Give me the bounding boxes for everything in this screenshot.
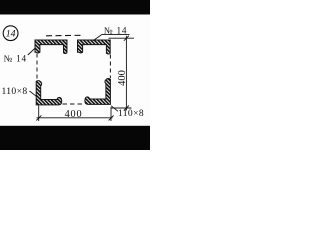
- angle L2 (bottom-right, 110x8): [85, 79, 111, 105]
- leader: [93, 34, 102, 40]
- extension line right: [110, 107, 112, 121]
- figure number circle 14: [3, 26, 18, 41]
- label No.14 top-right: [93, 25, 130, 40]
- horizontal dimension 400: [36, 106, 113, 122]
- svg-text:110×8: 110×8: [118, 108, 144, 119]
- channel C2 (top-right, No.14): [78, 40, 111, 54]
- svg-text:№ 14: № 14: [104, 25, 127, 35]
- svg-text:14: 14: [6, 29, 16, 40]
- top black bar: [0, 0, 150, 15]
- dimension line: [37, 117, 113, 119]
- vertical dimension 400: [109, 36, 135, 111]
- extension line left: [38, 106, 40, 122]
- svg-text:№ 14: № 14: [4, 53, 27, 63]
- tick bottom: [124, 106, 129, 111]
- dashed outline right side: [109, 55, 111, 79]
- svg-text:400: 400: [65, 109, 83, 120]
- tick top: [124, 36, 129, 41]
- angle L1 (bottom-left, 110x8): [36, 81, 62, 105]
- dashed outline bottom side: [63, 103, 85, 105]
- channel C1 (top-left, No.14): [35, 40, 67, 53]
- svg-text:400: 400: [117, 70, 128, 86]
- tick right: [109, 115, 114, 120]
- underline: [102, 33, 130, 35]
- svg-text:110×8: 110×8: [2, 86, 28, 97]
- leader: [28, 48, 36, 55]
- extension line bottom: [112, 107, 132, 109]
- dashed outline left side: [36, 54, 38, 81]
- dimension line: [125, 36, 127, 111]
- label 110x8 left: [2, 86, 37, 97]
- dashed line top (axis): [46, 34, 81, 37]
- bottom black bar: [0, 126, 150, 150]
- leader: [30, 91, 37, 96]
- extension line top: [109, 37, 135, 39]
- label No.14 left: [4, 48, 36, 63]
- label 110x8 right: [111, 106, 144, 119]
- leader: [111, 106, 118, 112]
- tick left: [36, 115, 41, 120]
